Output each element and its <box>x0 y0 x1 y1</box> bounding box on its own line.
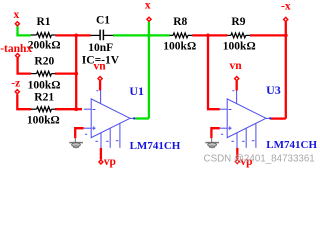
capacitor C1 10nF <box>90 30 113 41</box>
U1 output pin dot <box>133 117 135 119</box>
wire: net x green, C1 right plate to R8 <box>113 34 170 36</box>
junction dot: R8/R9 node <box>206 34 210 38</box>
wire: red vn U3 port down to pin 7 <box>236 81 238 91</box>
svg-text:100kΩ: 100kΩ <box>28 79 61 91</box>
wire: red U3 non-inverting input to ground <box>211 128 219 138</box>
wire: red U1 non-inverting input to ground <box>75 128 84 138</box>
op-amp U3 LM741CH <box>220 90 272 147</box>
svg-text:CSDN @2401_84733361: CSDN @2401_84733361 <box>204 153 315 164</box>
port diamond x top-left <box>15 22 19 26</box>
op-amp U1 LM741CH <box>84 90 136 147</box>
wire: red -x vertical from port through row to U3 output <box>285 22 287 119</box>
svg-text:100kΩ: 100kΩ <box>163 40 196 52</box>
svg-text:vn: vn <box>230 60 243 72</box>
wire: net x green, U1 output to vertical riser <box>135 117 149 119</box>
svg-text:-z: -z <box>11 78 20 90</box>
wire: red R20 right to summing vertical <box>55 72 76 74</box>
wire: red U3 output to -x vertical <box>271 117 286 119</box>
svg-text:vp: vp <box>104 156 116 168</box>
svg-text:R8: R8 <box>173 16 187 28</box>
ground at U3 <box>205 138 219 148</box>
wire: net x green vertical riser <box>148 22 150 119</box>
junction dot: -x node <box>284 34 288 38</box>
wire: red vn U1 port down to pin 7 <box>99 81 101 91</box>
svg-text:-x: -x <box>281 1 291 13</box>
port diamond -tanhx <box>16 54 20 58</box>
resistor R9 100k <box>227 33 250 38</box>
svg-text:200kΩ: 200kΩ <box>28 40 61 52</box>
port diamond vp U3 <box>235 160 239 164</box>
U3 output pin dot <box>269 117 271 119</box>
node x junction dot (green) <box>147 34 151 38</box>
svg-text:R21: R21 <box>34 92 54 104</box>
svg-text:100kΩ: 100kΩ <box>27 115 60 127</box>
wire: red pin 4 U3 down to vp port <box>236 148 238 159</box>
svg-text:x: x <box>145 0 151 11</box>
wire: red, R1 right to C1 left (summing node) <box>55 34 90 36</box>
svg-text:U3: U3 <box>266 83 281 97</box>
resistor R21 100k <box>31 107 55 112</box>
wire: red R9 right to -x node <box>250 34 286 36</box>
svg-text:R9: R9 <box>231 16 245 28</box>
svg-text:LM741CH: LM741CH <box>130 140 181 152</box>
svg-text:LM741CH: LM741CH <box>266 139 317 151</box>
wire: red R8 right to R9 left <box>192 34 227 36</box>
resistor R1 200k <box>31 33 56 38</box>
junction dot: summing node at R20 row <box>74 72 78 76</box>
port diamond vp U1 <box>99 160 103 164</box>
wire: red R8/R9 junction down to U3 inverting input <box>208 34 220 109</box>
wire: red pin 4 U1 down to vp port <box>100 148 102 160</box>
svg-text:100kΩ: 100kΩ <box>223 40 256 52</box>
port diamond -z <box>15 90 19 94</box>
svg-text:x: x <box>14 9 20 21</box>
wire: red from -tanhx port to R20 <box>18 58 32 74</box>
resistor R20 100k <box>31 71 55 76</box>
svg-text:C1: C1 <box>96 14 110 26</box>
port diamond vn U1 <box>98 77 102 81</box>
junction dot: summing node at R1/C1 row <box>74 34 78 38</box>
wire: net x, green, port x TL down to row <box>18 26 31 35</box>
resistor R8 100k <box>170 33 193 38</box>
port diamond -x <box>284 17 288 21</box>
wire: red summing vertical <box>75 34 77 109</box>
svg-text:-tanhx: -tanhx <box>0 43 32 55</box>
junction dot: summing node at R21 row / U1 inverting input <box>74 107 78 111</box>
wire: red R21 right to U1 inverting input <box>55 108 82 110</box>
svg-text:vn: vn <box>94 61 107 73</box>
port diamond vn U3 <box>235 77 239 81</box>
svg-text:10nF: 10nF <box>88 42 113 54</box>
wire: red from -z port to R21 <box>17 94 31 109</box>
svg-text:U1: U1 <box>129 84 144 98</box>
svg-text:R1: R1 <box>37 16 51 28</box>
svg-text:R20: R20 <box>34 55 54 67</box>
port diamond x top-center <box>147 17 151 21</box>
ground at U1 <box>69 138 83 148</box>
